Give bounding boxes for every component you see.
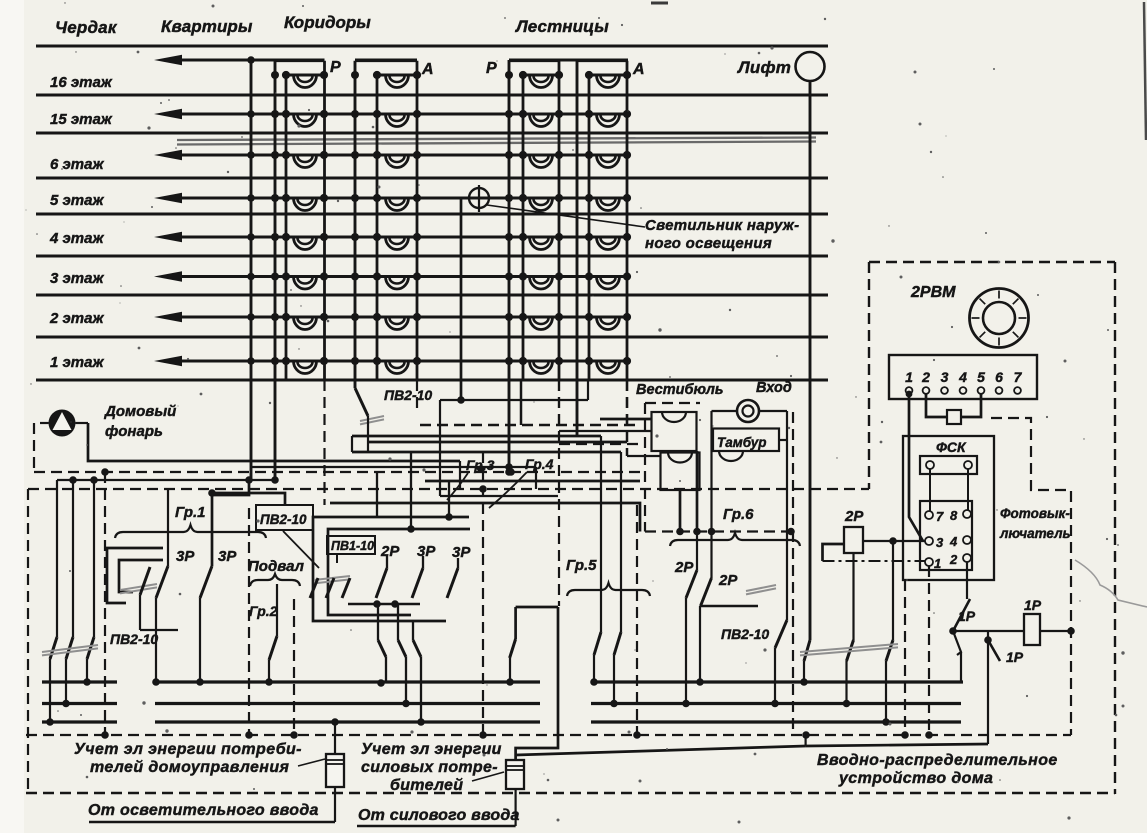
- wire: left feeder drops with switch blades: [56, 480, 58, 637]
- wire: top cap of Лестницы-А: [577, 59, 627, 62]
- wire: floor feed lines with arrows to apartments: [154, 55, 628, 366]
- svg-text:силовых потре-: силовых потре-: [361, 759, 498, 776]
- svg-text:Гр.5: Гр.5: [566, 557, 597, 574]
- wire: outdoor light horizontal y=400: [440, 399, 588, 401]
- wire: dashed drop x=637: [636, 505, 638, 735]
- lamp column Лестницы-А: rails: [588, 75, 591, 380]
- lamp Лестницы-Р floor row 1: [519, 71, 563, 88]
- lamp Коридоры-Р floor row 4: [282, 194, 328, 211]
- wire: dashed continuation of Коридоры-Р right rail: [323, 380, 325, 505]
- wire: ВРУ feeder 3: [892, 541, 894, 640]
- wire: horizontal y=503: [330, 503, 640, 532]
- wire: Гр.5 feed drop x=601: [600, 436, 602, 632]
- svg-text:16 этаж: 16 этаж: [50, 74, 113, 91]
- wire: riser Лифт (x=810): [809, 81, 812, 640]
- svg-text:3: 3: [941, 369, 949, 385]
- lamp Лестницы-Р floor row 7: [519, 313, 563, 330]
- wire: ФСК pin2 drop: [966, 562, 968, 599]
- svg-text:1: 1: [905, 369, 913, 385]
- svg-text:А: А: [632, 61, 645, 78]
- wire: bundle horizontal y=442: [368, 441, 627, 444]
- labels: floor numbers: [49, 74, 113, 371]
- lamp Лестницы-А floor row 3: [585, 151, 631, 168]
- lamp Коридоры-А floor row 4: [373, 194, 421, 211]
- wire: horizontal y=496: [440, 495, 558, 497]
- wire: riser Лестницы-Р outer (x=509): [508, 60, 511, 472]
- svg-text:Р: Р: [486, 60, 497, 77]
- wire: box2 drop: [679, 490, 682, 532]
- relay 2Р coil: [844, 527, 863, 553]
- svg-text:3Р: 3Р: [417, 543, 436, 560]
- wire: switch output link: [348, 603, 420, 605]
- wire: 1Р return to силовой circuit: [516, 746, 806, 755]
- dashed box: вестибюль group: [644, 403, 646, 532]
- svg-text:15 этаж: 15 этаж: [50, 111, 113, 128]
- svg-text:От осветительного ввода: От осветительного ввода: [88, 802, 319, 819]
- box Тамбур: [713, 429, 779, 452]
- svg-text:Светильник наруж-: Светильник наруж-: [645, 217, 799, 234]
- scan edge artifacts: [1144, 2, 1146, 140]
- lamp Коридоры-Р floor row 8: [282, 357, 328, 374]
- wire: bundle horizontal y=452: [352, 451, 621, 454]
- svg-text:Подвал: Подвал: [248, 558, 305, 575]
- svg-text:Учет эл энергии: Учет эл энергии: [361, 741, 502, 758]
- wire: drops to buses with second blades: [377, 604, 379, 640]
- lamp Коридоры-А floor row 8: [373, 357, 421, 374]
- wire: dashed bus y=472: [34, 471, 640, 473]
- lamp Коридоры-Р floor row 5: [282, 233, 328, 250]
- svg-text:Гр.2: Гр.2: [249, 603, 278, 619]
- wire: dashed Подвал risers: [248, 508, 250, 735]
- scan artifact squiggle bottom right: [1075, 560, 1147, 607]
- lamp Лестницы-А floor row 1: [585, 71, 631, 88]
- wire: dashed continuation of Лестницы-Р right rail: [558, 380, 560, 606]
- lamp column Коридоры-А: rails: [376, 75, 379, 380]
- lamp Лестницы-Р floor row 2: [519, 110, 563, 127]
- dashed box: вводно-распределительное устройство: [869, 261, 1115, 263]
- wire: dashed drops from ФСК: [904, 580, 906, 735]
- wire: relay 1Р to dashed border: [1040, 630, 1071, 632]
- svg-text:Гр.4: Гр.4: [525, 456, 554, 472]
- lamp column Коридоры-Р: rails: [285, 75, 288, 380]
- svg-text:ПВ2-10: ПВ2-10: [384, 387, 432, 403]
- wire: bus line 3: [42, 720, 961, 723]
- brace Гр.5: [567, 583, 650, 596]
- svg-text:2Р: 2Р: [380, 543, 400, 560]
- svg-text:2: 2: [921, 369, 930, 385]
- wire: relay 2Р left connection: [823, 544, 845, 561]
- svg-text:3Р: 3Р: [176, 548, 195, 565]
- svg-text:ПВ2-10: ПВ2-10: [110, 631, 158, 647]
- lamp Коридоры-Р floor row 1: [282, 71, 328, 88]
- leader Гр.3: [447, 473, 468, 500]
- lamp: тамбур fixture arc: [719, 451, 743, 461]
- switch ПВ2-10 (Гр.1) package outline: [107, 548, 163, 603]
- svg-text:3Р: 3Р: [452, 544, 471, 561]
- lamp Коридоры-А floor row 7: [373, 313, 421, 330]
- svg-text:ФСК: ФСК: [936, 439, 967, 455]
- wire: top cap of Коридоры-А: [355, 59, 417, 62]
- meter: силовой учёт: [506, 760, 524, 789]
- svg-text:6: 6: [995, 369, 1003, 385]
- dashed border: left edge of metering area: [27, 489, 29, 793]
- lamp Лестницы-А floor row 7: [585, 313, 631, 330]
- lamp Лестницы-Р floor row 5: [519, 233, 563, 250]
- wire: horizontal y=481: [425, 480, 640, 483]
- svg-text:Чердак: Чердак: [55, 18, 118, 37]
- leader Гр.4: [489, 472, 527, 508]
- svg-text:2: 2: [949, 552, 958, 567]
- svg-text:5 этаж: 5 этаж: [50, 192, 104, 209]
- lamp: Вход light (double circle): [737, 400, 759, 422]
- wire: dashed right edge x=793: [792, 412, 794, 735]
- wire: top cap of Коридоры-Р: [275, 59, 325, 62]
- wire: riser Коридоры-А outer (x=355): [354, 61, 357, 388]
- svg-text:4: 4: [949, 534, 958, 549]
- wire: от силового ввода: [357, 825, 516, 827]
- svg-text:бителей: бителей: [390, 777, 463, 794]
- lamp Лестницы-Р floor row 8: [519, 357, 563, 374]
- boxed label ПВ1-10: [327, 536, 375, 554]
- svg-text:7: 7: [1014, 369, 1023, 385]
- wire: dashed bus y=489: [28, 488, 869, 490]
- svg-text:Учет эл энергии потреби-: Учет эл энергии потреби-: [74, 741, 302, 758]
- boxed label ПВ2-10 (Подвал): [256, 505, 313, 530]
- fuse square on jumper: [947, 410, 961, 424]
- svg-text:2РВМ: 2РВМ: [910, 284, 956, 301]
- svg-text:7: 7: [936, 509, 944, 524]
- wire: вестибюль connections: [712, 410, 738, 412]
- wire: outdoor light drop: [461, 198, 469, 400]
- wire: ПВ1-10 group outer loop: [313, 517, 469, 621]
- wire: dashed link y=444: [559, 443, 640, 445]
- wire: relay 2Р to ФСК pin 3: [863, 540, 925, 542]
- switch linkage ПВ1-10: [314, 576, 350, 580]
- svg-text:6 этаж: 6 этаж: [50, 156, 104, 173]
- svg-text:фонарь: фонарь: [105, 423, 163, 440]
- svg-text:5: 5: [977, 369, 985, 385]
- lamp Коридоры-Р floor row 7: [282, 313, 328, 330]
- lamp: Домовый фонарь (house lantern symbol): [49, 410, 76, 437]
- wire: dashed link y=425: [420, 424, 640, 426]
- timer 2РВМ (clock face): [970, 289, 1029, 348]
- wire: corner y=493: [212, 493, 285, 505]
- svg-text:лючатель: лючатель: [999, 526, 1071, 541]
- lamp Коридоры-А floor row 2: [373, 110, 421, 127]
- switch 1Р (second contact): [987, 631, 989, 744]
- wire: Гр.5 feed drop x=621: [620, 452, 622, 632]
- wire: bus line 1: [42, 680, 963, 683]
- brace Гр.1: [115, 525, 266, 538]
- svg-text:2Р: 2Р: [674, 559, 694, 576]
- svg-text:Квартиры: Квартиры: [161, 17, 253, 36]
- svg-text:Домовый: Домовый: [103, 403, 176, 420]
- ФСК sensor terminal block: [920, 456, 977, 474]
- switch 1Р (photoswitch contact): [953, 599, 970, 631]
- lamp column Лестницы-Р: rails: [522, 75, 525, 380]
- wire: top cap of Лестницы-Р: [509, 59, 559, 62]
- svg-text:3Р: 3Р: [218, 548, 237, 565]
- wire: vertical x=521 stub: [520, 380, 523, 425]
- svg-text:1Р: 1Р: [1024, 597, 1042, 613]
- lamp Лестницы-А floor row 4: [585, 194, 631, 211]
- wire: pin1 drop to ФСК: [906, 391, 913, 398]
- wire: dashed drop x=105: [104, 472, 106, 735]
- wire: feeds into group: [376, 472, 378, 517]
- wire: box1 right drop: [696, 451, 699, 532]
- svg-text:Вестибюль: Вестибюль: [636, 382, 723, 398]
- wire: dash-dot to ФСК pin 1: [823, 560, 926, 562]
- lamp Лестницы-А floor row 6: [585, 272, 631, 289]
- svg-text:Гр.3: Гр.3: [466, 457, 495, 473]
- wire: dashed continuation of Лестницы-А right rail: [626, 380, 628, 430]
- lamp Коридоры-Р floor row 6: [282, 272, 328, 289]
- svg-text:ПВ1-10: ПВ1-10: [331, 539, 374, 553]
- svg-text:3 этаж: 3 этаж: [50, 270, 104, 287]
- svg-text:Вход: Вход: [756, 380, 792, 396]
- svg-text:От силового ввода: От силового ввода: [358, 807, 520, 824]
- wire: riser Лестницы-А outer (x=577): [576, 60, 579, 436]
- lamp: вестибюль fixture 1: [652, 412, 697, 451]
- lamp Лестницы-А floor row 5: [585, 233, 631, 250]
- wire: building section break (double grey line): [177, 138, 816, 145]
- lamp Коридоры-А floor row 6: [373, 272, 421, 289]
- svg-text:Вводно-распределительное: Вводно-распределительное: [817, 752, 1058, 769]
- wire: dashed link from pin5 to photoswitch circuit: [991, 418, 1071, 735]
- brace Подвал: [250, 574, 300, 586]
- wire: riser Квартиры (x=251): [250, 60, 253, 480]
- wire: riser Коридоры-Р outer (x=275): [274, 61, 277, 480]
- svg-text:Гр.1: Гр.1: [175, 504, 206, 521]
- svg-text:Лестницы: Лестницы: [514, 17, 609, 36]
- svg-text:1: 1: [934, 556, 941, 571]
- svg-text:3: 3: [936, 535, 944, 550]
- wire: bus line 2: [42, 702, 961, 705]
- wire: horizontal y=467 to Квартиры groups: [251, 466, 536, 468]
- lamp Лестницы-А floor row 2: [585, 110, 631, 127]
- svg-text:4: 4: [958, 369, 967, 385]
- svg-text:1Р: 1Р: [1006, 649, 1024, 665]
- svg-text:2Р: 2Р: [844, 508, 864, 525]
- svg-text:А: А: [421, 61, 434, 78]
- lamp Лестницы-Р floor row 6: [519, 272, 563, 289]
- lamp Коридоры-А floor row 5: [373, 233, 421, 250]
- svg-text:2 этаж: 2 этаж: [49, 310, 104, 327]
- svg-text:2Р: 2Р: [718, 572, 738, 589]
- wire: Гр.5 metering hook: [516, 607, 558, 760]
- switch poles ПВ1-10: [310, 578, 318, 598]
- switch ПВ2-10 (Коридоры-А riser): [355, 388, 368, 416]
- svg-text:Тамбур: Тамбур: [717, 435, 767, 450]
- lamp Коридоры-А floor row 3: [373, 151, 421, 168]
- lamp Лестницы-Р floor row 4: [519, 194, 563, 211]
- wire: horizontal feeder y=480: [57, 479, 278, 481]
- leader to meter 2: [472, 772, 504, 781]
- leader to meter 1: [298, 759, 325, 766]
- device ФСК (photo relay) outer box: [903, 436, 994, 580]
- lamp Коридоры-Р floor row 3: [282, 151, 328, 168]
- wire: ПВ1-10 group inner loop: [328, 529, 470, 615]
- svg-text:телей домоуправления: телей домоуправления: [90, 759, 290, 776]
- lamp Коридоры-Р floor row 2: [282, 110, 328, 127]
- svg-text:8: 8: [950, 508, 958, 523]
- svg-text:Лифт: Лифт: [736, 58, 791, 77]
- relay 1Р coil: [1024, 614, 1040, 645]
- wire: lift riser switch: [804, 640, 810, 661]
- lamp Лестницы-А floor row 8: [585, 357, 631, 374]
- lamp: Лифт light (circle): [796, 52, 825, 81]
- switch тамбур feed: [775, 620, 787, 648]
- wire: dashed bus y=735: [26, 734, 1071, 736]
- switch Гр.2: [276, 584, 278, 636]
- svg-text:Р: Р: [330, 59, 341, 76]
- wire: floor boundary horizontal lines (Чердак..1 этаж): [36, 46, 828, 380]
- wire: от осветительного ввода: [89, 821, 335, 823]
- svg-text:ПВ2-10: ПВ2-10: [260, 512, 307, 527]
- terminal strip of 2РВМ (pins 1-7): [889, 355, 1037, 399]
- switch linkage bar (ВРУ 3-pole): [800, 644, 898, 652]
- wire: bundle horizontal y=436: [352, 435, 601, 438]
- wire: pin2-square-pin5 jumper: [926, 394, 947, 417]
- dashed border: bottom y=793: [26, 792, 1115, 794]
- svg-text:ного освещения: ного освещения: [645, 235, 772, 252]
- lamp Лестницы-Р floor row 3: [519, 151, 563, 168]
- switch linkage bar (3-pole): [42, 645, 98, 652]
- ФСК contact block: [920, 501, 972, 570]
- wire: вестибюль feeds from ladder: [626, 380, 629, 456]
- svg-text:1 этаж: 1 этаж: [50, 354, 104, 371]
- svg-text:Фотовык-: Фотовык-: [1000, 506, 1070, 521]
- svg-text:Гр.6: Гр.6: [723, 506, 754, 523]
- lamp Коридоры-А floor row 1: [373, 71, 421, 88]
- svg-text:1Р: 1Р: [958, 608, 976, 624]
- wire: lantern connections: [76, 422, 89, 424]
- wire: dashed continuation of Коридоры-А right rail: [416, 380, 418, 412]
- wire: link between Гр.6 switch bottoms: [700, 605, 758, 607]
- lamp: светильник наружного освещения (circle with bar): [469, 188, 489, 208]
- svg-text:4 этаж: 4 этаж: [49, 230, 104, 247]
- meter: дом учёт (осветительный): [334, 722, 336, 754]
- leader ПВ2-10 to switch: [283, 531, 319, 568]
- wire: 1Р contact to relay coil: [953, 630, 1024, 632]
- svg-text:устройство дома: устройство дома: [838, 770, 993, 787]
- wire: ВРУ feeder 2: [852, 553, 854, 640]
- leader line to outdoor light label: [487, 205, 645, 227]
- lamp: вестибюль fixture 2: [661, 453, 700, 491]
- svg-text:Коридоры: Коридоры: [284, 13, 371, 32]
- wire: dashed drop x=483: [482, 452, 484, 735]
- brace Гр.6: [670, 533, 800, 546]
